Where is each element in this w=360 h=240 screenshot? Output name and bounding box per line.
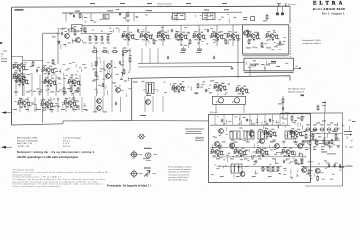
capacitor C51 (119, 61, 121, 65)
transistor Q23 (240, 172, 245, 177)
box input module (72, 25, 83, 31)
wire drop M1 (27, 97, 29, 112)
wire frame top edge (12, 5, 290, 8)
wire right section top (280, 112, 343, 114)
note AFC out (344, 134, 350, 136)
capacitor C32 (282, 107, 284, 111)
wire out line (306, 166, 343, 168)
meter symbol M1 (138, 134, 146, 139)
resistor R97 (301, 115, 303, 121)
wire FM sub bus (210, 124, 290, 126)
amplifier stage T32 (235, 85, 249, 94)
component labels texture mid row (57, 27, 228, 49)
node T mark 2 (237, 39, 240, 41)
svg-text:in Bagside af blad 3.: in Bagside af blad 3. (302, 43, 321, 45)
transistor Q32 (275, 144, 280, 149)
resistor R10 (92, 51, 98, 53)
node right tick (352, 120, 355, 123)
note C label (321, 151, 327, 154)
amplifier stage T30 (246, 31, 260, 40)
wire stage drop 6 (232, 25, 234, 46)
svg-text:Del 1. Udgave 1.: Del 1. Udgave 1. (322, 12, 346, 15)
coil module L4 (103, 14, 109, 19)
wire drop L8 (79, 75, 81, 97)
wire dashed link (290, 27, 292, 57)
svg-text:" A. MF - 7 M: " A. MF - 7 M (17, 145, 29, 148)
amplifier stage T3 (41, 65, 55, 74)
wire V4 (237, 40, 239, 78)
trimmer CT2 (281, 7, 283, 15)
wire v x96 (96, 48, 98, 96)
page edge tick (0, 42, 2, 44)
transistor Q33 (260, 139, 265, 144)
transistor Q24 (298, 144, 303, 149)
wire FM sub bus 2 (218, 165, 283, 167)
box AM module (243, 25, 289, 54)
wire FM drop 3 (239, 114, 241, 125)
wire drop C3 (133, 13, 135, 22)
wire FM h mid2 (212, 156, 306, 158)
wire drop L7 (71, 75, 73, 97)
note AC132 label (144, 148, 152, 149)
resistor R60 (262, 166, 264, 172)
resistor R81 (309, 140, 311, 146)
transistor Q3 (116, 88, 121, 93)
svg-text:Bagside af blad 3.: Bagside af blad 3. (288, 91, 305, 93)
transistor Q31 (219, 129, 224, 134)
svg-text:Ferrit ant.: Ferrit ant. (288, 3, 297, 6)
IF transformer IF2 (230, 131, 240, 139)
amplifier stage T43 (233, 147, 247, 156)
driver transformer TR1 (213, 96, 246, 104)
node arrow input 2 (1, 146, 6, 149)
wire drop C1 (90, 13, 92, 22)
resistor R1 (79, 13, 81, 19)
wire mid box bottom edge (132, 120, 209, 122)
wire legend dash 2 (154, 154, 158, 156)
wire drop (144, 96, 146, 112)
trimmer CT1 (276, 7, 278, 15)
component labels texture right col B (306, 161, 342, 180)
wire right section bottom (305, 185, 343, 187)
wire drop L6 (63, 75, 65, 97)
amplifier stage T9 (63, 98, 77, 107)
wire stage drop 2 (162, 26, 164, 46)
wire left bottom edge (12, 124, 64, 125)
wire AM module double bottom (243, 55, 289, 57)
amplifier stage T20 (171, 83, 185, 92)
wire drop M4 (50, 97, 52, 112)
svg-text:5 µV for 5 W output: 5 µV for 5 W output (63, 136, 81, 139)
capacitor C52 (328, 141, 330, 145)
resistor R62 (272, 166, 274, 172)
wire mid line A (138, 62, 244, 65)
resistor R72 (331, 139, 333, 145)
svg-text:Hovedplade 70-434: Hovedplade 70-434 (302, 40, 321, 42)
capacitor C4a (73, 14, 75, 18)
wire FM drop 4 (249, 114, 251, 125)
wire H2 (82, 32, 112, 34)
resistor R94 (312, 133, 314, 139)
wire left pair row 1 (12, 64, 26, 66)
capacitor C12 (137, 29, 139, 33)
wire right edge (342, 113, 344, 186)
svg-text:Nulstand i retning der , fra: Nulstand i retning der , fra og dimensio… (17, 150, 95, 154)
capacitor C56 (255, 160, 257, 164)
node tag 4 (204, 9, 209, 12)
wire drop M7 (73, 97, 75, 112)
IF transformer IF5 (258, 131, 267, 139)
legend transistor AC132 (130, 150, 139, 159)
trimmer C16 (181, 47, 186, 51)
component labels texture input cluster (57, 28, 87, 49)
resistor R53 (317, 105, 319, 111)
capacitor C57 (283, 160, 285, 164)
note frame-top dashes (90, 2, 227, 5)
capacitor C31 (271, 62, 276, 64)
resistor R16 (95, 71, 97, 77)
transistor Q10 (146, 100, 151, 105)
capacitor C60 (115, 102, 117, 106)
resistor R51 (251, 64, 257, 66)
capacitor C13 (171, 29, 173, 33)
wire vertical V1 (42, 33, 44, 123)
wire FM h mid (210, 146, 308, 148)
legend diode symbol (144, 171, 150, 177)
capacitor C55 (269, 118, 271, 122)
transistor Q5 (97, 106, 102, 111)
amplifier stage T31 (265, 31, 279, 40)
svg-text:Frontplade. Se bagside af blad: Frontplade. Se bagside af blad 1 ! (107, 184, 151, 188)
note tiny box mark (196, 137, 203, 141)
transistor Q1b (76, 38, 81, 43)
node tag 5 (224, 8, 229, 11)
component labels texture AM module (247, 30, 286, 50)
resistor R30 (153, 39, 155, 45)
resistor R32 (225, 39, 227, 45)
wire frame right drop (289, 6, 291, 23)
wire stage drop 0 (127, 26, 129, 46)
resistor RN1c (101, 35, 103, 41)
transistor Q30 (107, 64, 112, 69)
resistor R13 (122, 51, 128, 53)
node plus tick (322, 101, 326, 104)
amplifier stage T5 (43, 77, 57, 86)
legend transistor AA119 (130, 169, 139, 178)
wire rc v1 (324, 113, 326, 146)
svg-text:30 1 5 1: 30 1 5 1 (63, 146, 71, 148)
amplifier stage T13 (174, 31, 188, 40)
resistor R20 (63, 87, 65, 93)
resistor R5 (74, 30, 76, 36)
diode row D1-D5 (305, 128, 310, 131)
amplifier stage T41 (289, 128, 303, 137)
resistor R3 (266, 14, 268, 20)
wire drop M2 (34, 97, 36, 112)
resistor R100 (248, 39, 250, 45)
wire drop L5 (55, 75, 57, 97)
IF transformer IF4 (285, 131, 294, 139)
component labels texture left block B (14, 97, 88, 112)
resistor R82 (316, 140, 318, 146)
wire v x104 (103, 60, 105, 96)
trimmer C17 (197, 47, 202, 51)
transistor Q4 (97, 99, 102, 104)
capacitor C58 (257, 32, 259, 36)
IF transformer IF3 (244, 131, 254, 139)
capacitor C20 (205, 89, 207, 93)
wire input stub (12, 55, 24, 57)
component labels texture right col A (305, 128, 340, 150)
resistor R101 (84, 27, 86, 33)
wire chain X3 (141, 48, 143, 63)
svg-text:Antennebåndet 1 MHz: Antennebåndet 1 MHz (17, 136, 37, 139)
box detector module (244, 58, 294, 71)
transistor Q25 (302, 168, 307, 173)
resistor R91 (52, 59, 54, 65)
svg-text:ELTRA: ELTRA (313, 0, 345, 6)
component labels texture mid box (141, 81, 230, 96)
capacitor C14 (207, 29, 209, 33)
capacitor C7 (58, 41, 60, 45)
capacitor C30 (247, 30, 249, 34)
capacitor C5 (119, 12, 121, 16)
node T mark (122, 73, 124, 77)
wire rc h1 (311, 133, 343, 135)
note RV label (133, 81, 138, 84)
IF transformer TR2 (231, 164, 242, 173)
wire v x120 (120, 97, 122, 112)
amplifier stage T21 (213, 82, 227, 91)
wire V5 (282, 96, 284, 120)
wire vertical V3 (22, 56, 24, 96)
coil module L2 (173, 13, 186, 20)
box FM front end (209, 114, 311, 183)
node AM antenna tick 2 (285, 4, 287, 7)
wire FM drop 7 (272, 114, 274, 125)
capacitor C42 (339, 164, 341, 168)
amplifier stage T8 (40, 99, 54, 108)
amplifier stage T1 (12, 62, 26, 71)
node antenna input mark (15, 9, 24, 10)
amplifier stage T12 (156, 31, 170, 40)
wire drop C3c (206, 12, 208, 21)
transistor Q2 (106, 74, 111, 79)
note AA119 label (144, 168, 151, 169)
amplifier stage T45 (281, 147, 295, 156)
wire left mid h (23, 60, 43, 62)
wire left pair row 2 (12, 73, 26, 75)
resistor R73 (317, 175, 319, 181)
resistor R52 (282, 98, 284, 104)
wire chain X1 (122, 48, 124, 71)
wire drop L3 (39, 75, 41, 97)
resistor R31 (189, 39, 191, 45)
wire FM drop 1 (223, 114, 225, 125)
svg-text:Alle DC spændinger er målt ude: Alle DC spændinger er målt uden udsvings… (17, 155, 79, 159)
wire chain X2 (129, 48, 131, 71)
legend case outline (146, 153, 152, 158)
wire supply bus 1 (62, 11, 242, 14)
transistor Q1 (65, 34, 70, 39)
svg-text:FM front: FM front (210, 111, 218, 114)
capacitor C18 (167, 56, 169, 60)
node tag 2 (107, 9, 113, 12)
component labels texture right edge col (333, 120, 353, 148)
resistor R40 (197, 83, 199, 89)
wire vertical V2 (57, 33, 59, 64)
resistor R74 (308, 169, 310, 175)
capacitor C54 (246, 118, 248, 122)
note gap text block (185, 129, 204, 134)
capacitor C8 (102, 83, 104, 87)
wire drop M6 (65, 97, 67, 112)
wire detector double bottom (244, 71, 294, 73)
node LM output arrow (294, 67, 300, 69)
wire chain X5 (157, 48, 159, 63)
component labels texture FM top band (216, 117, 305, 130)
resistor R96 (291, 115, 293, 121)
amplifier stage T4 (15, 76, 29, 85)
amplifier stage T11 (139, 31, 153, 40)
wire drop L1 (23, 75, 25, 97)
component labels texture det module (246, 60, 288, 71)
coil module L3 (203, 13, 216, 20)
amplifier stage T2 (12, 72, 26, 81)
transistor Q20 (215, 142, 220, 147)
svg-text:LM: LM (295, 66, 298, 68)
wire drop C1a (65, 13, 67, 22)
wire drop M0 (19, 97, 21, 112)
amplifier stage T42 (210, 147, 224, 156)
coil L1 (251, 17, 255, 21)
resistor R22 (77, 87, 79, 93)
wire legend dash 1 (139, 153, 142, 155)
node udgang arrow (343, 166, 346, 168)
box output amplifier board (132, 76, 290, 121)
resistor R70 (315, 139, 317, 145)
wire drop L4 (47, 75, 49, 97)
svg-text:Støj 1. MF - 7 M: Støj 1. MF - 7 M (17, 142, 32, 145)
svg-text:Støj over 1 40 000 kHz: Støj over 1 40 000 kHz (17, 139, 38, 142)
svg-text:2 1 5 1: 2 1 5 1 (63, 143, 70, 145)
transistor Q21 (230, 143, 235, 148)
wire mid line B (138, 66, 232, 68)
wire FM drop 5 (257, 114, 259, 125)
amplifier stage T7 (17, 98, 31, 107)
ground (231, 67, 234, 69)
wire FM drop 6 (264, 114, 266, 125)
capacitor C41 (333, 164, 335, 168)
svg-text:Hovedplade 70-44: Hovedplade 70-44 (288, 89, 306, 91)
amplifier stage T10 (121, 31, 135, 40)
wire drop M8 (81, 97, 83, 112)
node AM antenna tick 1 (278, 4, 280, 7)
svg-text:75: 75 (1, 56, 3, 58)
svg-text:300: 300 (1, 54, 4, 56)
node tag 3 (146, 9, 152, 12)
node junction mark (301, 95, 305, 97)
amplifier stage T14 (192, 31, 206, 40)
capacitor C19 (213, 56, 215, 60)
wire FM drop 2 (232, 114, 234, 125)
resistor R50 (261, 42, 263, 48)
wire FM drop 0 (214, 114, 216, 125)
wire legend dash 4 (153, 173, 157, 175)
component labels texture left block A (15, 62, 86, 97)
wire top stub H1 (43, 32, 60, 34)
node tag 1 (75, 10, 80, 13)
resistor RN1b (95, 35, 97, 41)
resistor R80 (302, 140, 304, 146)
wire output vert (94, 96, 96, 112)
wire rc h2 (303, 140, 340, 142)
amplifier stage T6 (67, 77, 81, 86)
amplifier stage T44 (255, 147, 269, 156)
wire drop L2 (31, 75, 33, 97)
svg-text:Hi-Fi AM/FM 6935: Hi-Fi AM/FM 6935 (313, 7, 345, 11)
amplifier stage T15 (210, 31, 224, 40)
resistor R2 (127, 11, 129, 17)
capacitor C59 (279, 41, 281, 45)
note pin note (143, 157, 150, 160)
wire left bus (11, 7, 13, 125)
capacitor C53 (221, 119, 223, 123)
resistor R92 (123, 69, 125, 75)
wire legend dash 3 (139, 173, 142, 175)
wire drop M3 (42, 97, 44, 112)
wire TR leads (215, 104, 217, 112)
wire FM drop 9 (287, 114, 289, 125)
capacitor C40 (328, 164, 330, 168)
transistor Q34 (244, 31, 249, 36)
amplifier stage T16 (226, 31, 240, 40)
resistor R99 (301, 159, 303, 165)
capacitor C61 (61, 32, 63, 36)
resistor R21 (70, 87, 72, 93)
wire drop C2 (125, 13, 127, 22)
wire stage drop 5 (216, 25, 218, 46)
wire drop to box (249, 63, 251, 76)
wire v x112 (111, 60, 113, 96)
wire stage drop 1 (145, 26, 147, 46)
resistor R63 (277, 166, 279, 172)
wire drop C3b (176, 12, 178, 21)
resistor R15 (95, 61, 97, 67)
wire stage drop 3 (180, 25, 182, 46)
component labels texture left block C (92, 50, 132, 97)
resistor R93 (305, 133, 307, 139)
resistor R90 (32, 61, 34, 67)
capacitor C15 (122, 53, 124, 57)
resistor R61 (267, 166, 269, 172)
capacitor C50 (36, 69, 38, 73)
wire drop M5 (57, 97, 59, 112)
resistor R33 (129, 57, 131, 63)
resistor R71 (323, 139, 325, 145)
wire chain X4 (149, 48, 151, 63)
IF transformer IF1 (146, 83, 154, 94)
component labels texture top row (83, 14, 237, 23)
node arrow input 1 (1, 111, 6, 113)
transistor Q22 (249, 132, 254, 137)
resistor R98 (295, 159, 297, 165)
amplifier stage T40 (263, 128, 277, 137)
resistor RN1d (107, 35, 109, 41)
transistor Q26 (315, 168, 320, 173)
resistor R95 (335, 133, 337, 139)
wire supply bus 2 (82, 25, 242, 26)
